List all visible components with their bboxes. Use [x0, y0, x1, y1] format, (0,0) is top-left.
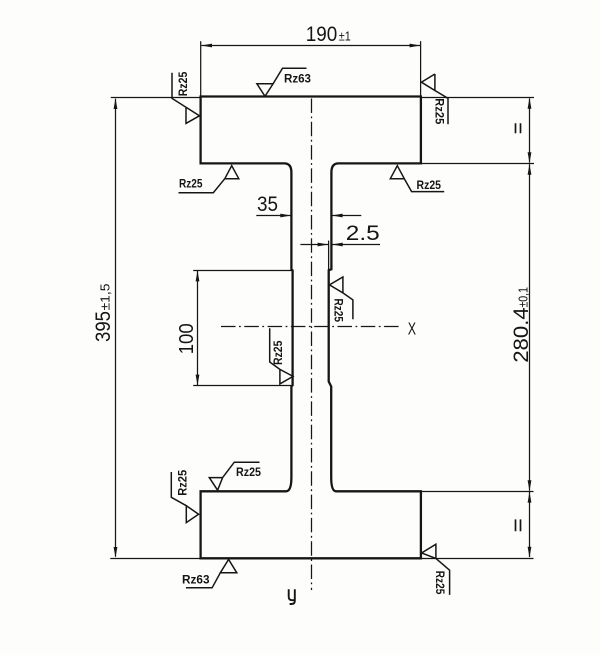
roughness symbol Rz25 bottom flange left side	[171, 472, 198, 523]
svg-text:100: 100	[175, 323, 198, 354]
roughness symbol Rz25 top flange right side	[421, 74, 448, 124]
svg-text:Rz25: Rz25	[331, 299, 343, 323]
arrow 2.5 right pointing left	[332, 243, 343, 247]
equals mark top	[516, 123, 521, 133]
svg-text:Rz63: Rz63	[284, 74, 311, 86]
extension line top edge left	[111, 97, 200, 99]
svg-text:190: 190	[306, 22, 338, 46]
svg-text:2.5: 2.5	[346, 222, 380, 245]
arrow equals bottom down	[528, 547, 532, 558]
svg-text:X: X	[408, 319, 417, 339]
svg-text:Rz25: Rz25	[178, 71, 190, 96]
svg-text:Rz25: Rz25	[433, 571, 445, 595]
arrow 35 right pointing left	[332, 214, 343, 218]
equals mark bottom	[516, 519, 521, 531]
arrow 100 bottom	[196, 375, 200, 386]
roughness symbol Rz25 top flange left side	[172, 73, 199, 124]
svg-text:±1: ±1	[339, 29, 351, 43]
extension line top edge right	[422, 97, 535, 99]
svg-text:±1,5: ±1,5	[99, 283, 113, 310]
dimension line equals top	[529, 98, 531, 162]
arrow 100 top	[196, 271, 200, 282]
dimension line 190	[202, 45, 421, 47]
horizontal centerline X-axis	[221, 326, 399, 328]
dimension 190 extension line right	[420, 41, 422, 96]
arrow 395 top	[114, 98, 118, 109]
dimension line 395	[115, 99, 117, 557]
svg-text:Rz25: Rz25	[417, 180, 442, 192]
svg-text:395: 395	[92, 311, 115, 342]
roughness symbol Rz25 web right	[330, 277, 353, 319]
svg-text:Rz63: Rz63	[182, 575, 210, 587]
roughness symbol Rz25 bottom flange right side	[422, 544, 450, 595]
roughness symbol Rz25 web left	[270, 328, 293, 384]
dimension 2.5 extension line	[328, 241, 330, 270]
axis label y (drawn glyph)	[289, 589, 295, 604]
roughness symbol Rz25 bottom flange top left	[209, 462, 259, 490]
dimension line equals bottom	[529, 492, 531, 557]
beam profile outline	[201, 97, 421, 559]
svg-text:280.4: 280.4	[510, 307, 533, 363]
roughness symbol Rz63 top flange top	[257, 68, 307, 96]
dimension line 35 right part	[332, 215, 361, 217]
arrow equals bottom up	[528, 492, 532, 503]
extension line top flange underside right	[422, 163, 535, 165]
dimension line 280.4	[529, 164, 531, 490]
vertical centerline y-axis	[311, 99, 313, 591]
dimension line 35 left part	[256, 215, 290, 217]
arrow 280.4 down	[528, 480, 532, 491]
dimension line 2.5 left part	[300, 244, 328, 246]
roughness symbol Rz25 top flange underside right	[390, 166, 444, 192]
roughness symbol Rz25 top flange underside left	[179, 166, 239, 193]
svg-text:Rz25: Rz25	[177, 469, 189, 496]
extension line bottom edge left	[110, 558, 200, 560]
extension line bottom edge right	[422, 558, 534, 560]
svg-text:35: 35	[257, 193, 278, 216]
surface finish symbols	[171, 68, 449, 595]
svg-text:Rz25: Rz25	[273, 340, 285, 365]
dimension line 2.5 right part	[332, 244, 380, 246]
arrow equals top up	[528, 98, 532, 109]
dimension 190 extension line left	[200, 41, 202, 96]
svg-text:Rz25: Rz25	[236, 467, 262, 479]
dimension 100 extension line bottom	[193, 385, 293, 387]
extension line bottom flange top right	[422, 491, 534, 493]
arrow 190 right	[410, 44, 421, 48]
arrow 280.4 up	[528, 164, 532, 175]
arrow 35 left pointing right	[280, 214, 291, 218]
svg-text:Rz25: Rz25	[433, 98, 445, 125]
arrow 2.5 left pointing right	[318, 243, 329, 247]
dimension line 100	[197, 271, 199, 385]
svg-text:Rz25: Rz25	[179, 178, 203, 190]
arrow 190 left	[201, 44, 212, 48]
arrow 395 bottom	[114, 547, 118, 558]
arrow equals top down	[528, 152, 532, 163]
arrowheads	[114, 44, 532, 558]
roughness symbol Rz63 bottom flange bottom	[186, 559, 237, 587]
svg-text:±0,1: ±0,1	[517, 287, 531, 308]
dimension 100 extension line top	[193, 270, 292, 272]
